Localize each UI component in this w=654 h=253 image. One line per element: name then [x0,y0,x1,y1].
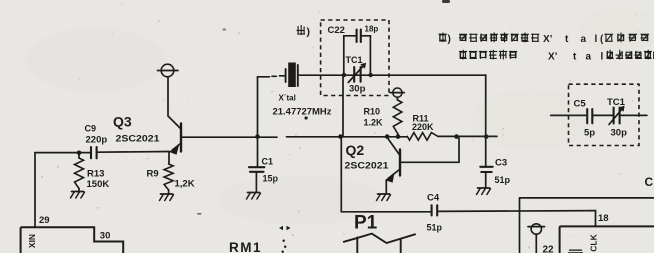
svg-text:30p: 30p [349,84,366,95]
node dots on crystal wire [342,73,346,77]
mark: RES overline text in right IC box [569,250,582,251]
ground under C1 [248,192,260,194]
terminal T2 [393,88,402,97]
wire: crystal to C22/TC1 net [299,74,486,76]
dashed box around C5/TC1 (alternative) [569,84,640,145]
jumper post right [400,239,402,253]
svg-text:R9: R9 [147,169,159,180]
svg-text:51p: 51p [427,222,443,232]
capacitor C5 plates [586,109,588,123]
wire: P1 line with C4 [341,211,430,213]
mark: arrows near RM1 [279,226,283,230]
svg-text:): ) [448,34,451,45]
note marker (top right line 1 kanji) [439,34,441,42]
wire: input rail y=152 from pin29 riser to Q3 emitter node [35,152,90,154]
wire: upper right rail to edge [520,197,654,199]
wire: crystal net corner down to C3 [485,75,487,166]
svg-text:X’: X’ [543,34,553,45]
mark: speck top middle [223,29,227,31]
trimmer TC1 arrow [348,65,364,83]
resistor R10 [396,97,398,100]
svg-text:l: l [601,51,604,62]
transistor Q2 base loop to rail [401,138,459,162]
svg-text:2SC2021: 2SC2021 [345,160,390,171]
wire: pin 18 drop [595,211,597,227]
svg-text:a: a [586,51,592,62]
note marker near dashed box [300,25,302,35]
terminal T1 (circle with bar) [161,64,174,77]
svg-text:TC1: TC1 [346,55,363,65]
transistor Q3 emitter w/ arrow [172,144,181,151]
trimmer TC1 alt arrow [609,108,623,125]
ground under R13 [72,191,84,193]
note line2 trailing kanji [607,52,612,57]
svg-text:2SC2021: 2SC2021 [116,133,161,144]
svg-text:22: 22 [543,244,555,253]
svg-text:Q2: Q2 [346,142,365,158]
svg-text:1.2K: 1.2K [364,118,384,128]
IC box right (CLK) [560,226,654,253]
wire: C5/TC1 series branch [551,114,586,116]
resistor R9 [164,164,173,190]
capacitor C22 branch loop [344,36,356,75]
note line2 kana run [462,50,464,60]
svg-text:150K: 150K [87,179,110,190]
svg-text:51p: 51p [495,175,511,185]
svg-text:C22: C22 [328,25,345,36]
resistor R11 [407,133,438,141]
wire: Q3 base rail [183,136,278,138]
ground under Q2 emitter [378,193,390,195]
trimmer TC1 plates [353,67,355,82]
svg-text:C4: C4 [427,192,440,203]
svg-text:X’: X’ [548,51,558,62]
paper noise specks [212,39,214,41]
wire: pin 29 riser [34,153,36,227]
ground under R9 [161,193,173,195]
jumper post left [356,237,358,253]
transistor Q2 emitter w/ arrow [388,170,400,179]
svg-text:18p: 18p [365,24,379,33]
mark: speck near P1 wire [197,213,202,215]
capacitor C9 plates [90,147,92,158]
svg-text:220K: 220K [412,122,434,132]
svg-text:30: 30 [100,230,111,241]
trimmer TC1 alt plates [613,108,615,124]
resistor R13 [78,153,80,158]
note line1 kanji after paren [611,34,613,41]
capacitor C3 plates [480,166,492,168]
svg-text:30p: 30p [611,127,628,138]
svg-text:C3: C3 [495,158,507,169]
svg-text:Q3: Q3 [113,113,132,129]
svg-text:C1: C1 [262,157,274,167]
svg-text:CLK: CLK [589,233,599,251]
ground under C3 [478,187,490,189]
wire: Q3 emitter down to R9 [168,152,170,164]
svg-text:TC1: TC1 [607,97,626,108]
transistor Q2 bar [399,150,401,176]
transistor Q2 collector [387,138,399,155]
svg-text:R10: R10 [364,106,381,116]
capacitor C4 plates [431,205,433,215]
jumper P1 wavy wire [344,234,415,243]
wire: center column linking crystal net / rail / P1 line [342,75,344,137]
node dots on rail [255,134,260,139]
mark: colon dots near RM1 [283,240,285,242]
svg-text:): ) [307,26,311,38]
svg-text:220p: 220p [86,134,108,145]
wire: rail down to C1 [257,137,259,167]
svg-text:29: 29 [39,215,50,226]
svg-text:18: 18 [598,213,609,224]
note line1 kanji run [459,33,467,35]
svg-text:R13: R13 [87,169,104,180]
IC box pin29 (X IN) [21,227,124,253]
wire: T1 down to Q3 collector [168,77,181,129]
dashed box around C22/TC1 [321,20,389,96]
node: junction dot at R13 top [77,151,82,156]
wire: riser at x=519 [519,198,521,253]
svg-text:C9: C9 [85,124,97,134]
mark: speck below MHz label [305,117,308,120]
transistor Q3 bar [180,124,182,152]
paper tone blotches [25,28,165,92]
capacitor C1 plates [249,166,264,168]
svg-text:21.47727MHz: 21.47727MHz [273,106,333,116]
mark: cut text at very top [442,0,450,3]
svg-text:XIN: XIN [27,234,37,248]
wire: rail up to crystal level [257,77,259,137]
crystal X1 [285,69,287,82]
svg-text:1,2K: 1,2K [175,179,195,190]
svg-text:C: C [645,175,654,189]
svg-text:X´tal: X´tal [279,93,296,102]
svg-text:RM1: RM1 [229,240,262,253]
terminal T3 [531,224,541,234]
